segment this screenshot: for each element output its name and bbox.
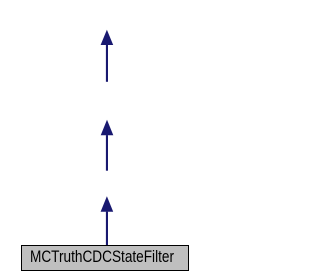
arrow 3 (bottom) <box>101 196 114 245</box>
svg-text:MCTruthCDCStateFilter: MCTruthCDCStateFilter <box>30 248 174 266</box>
inheritance diagram for MCTruthCDCStateFilter <box>0 0 213 277</box>
node MCTruthCDCStateFilter <box>22 246 189 271</box>
arrow 2 (middle) <box>101 120 114 171</box>
arrow 1 (top, to hidden base class) <box>101 30 114 82</box>
